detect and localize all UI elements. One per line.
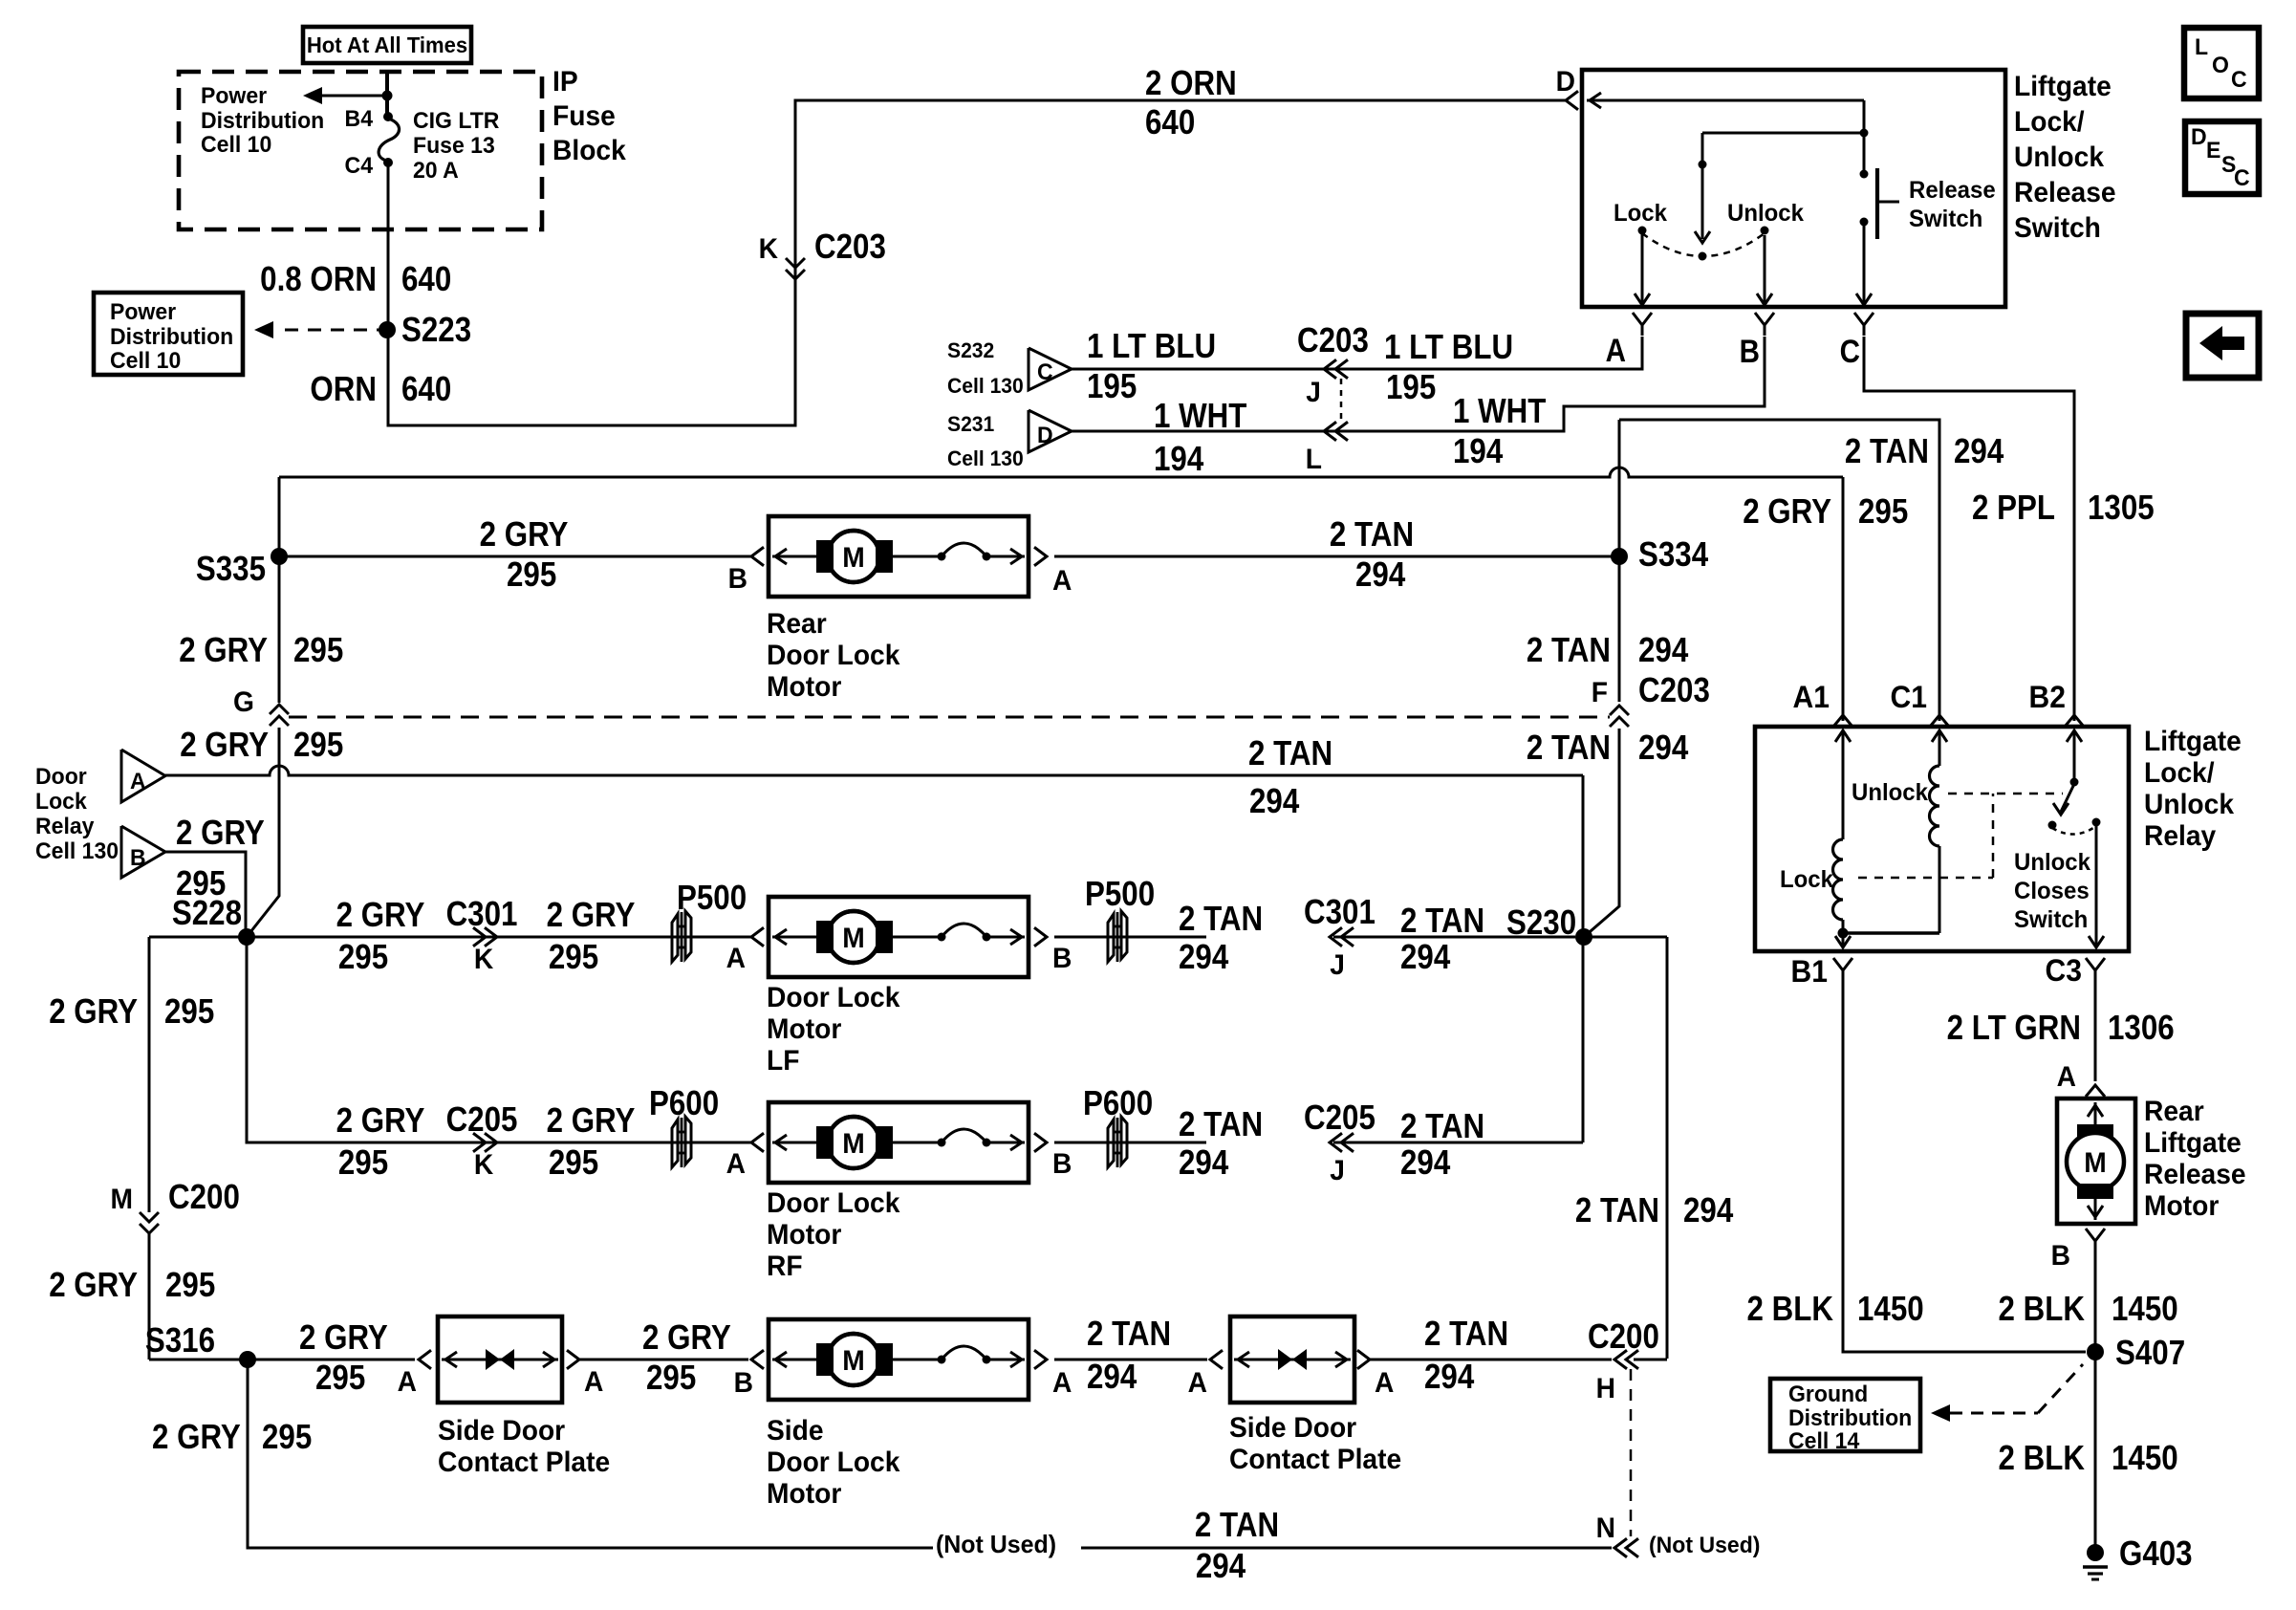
svg-text:A: A: [584, 1366, 603, 1398]
svg-text:B: B: [1052, 1148, 1072, 1180]
svg-text:M: M: [842, 923, 864, 954]
svg-text:S335: S335: [196, 550, 266, 589]
svg-text:194: 194: [1453, 432, 1503, 471]
svg-text:2 GRY: 2 GRY: [152, 1418, 241, 1457]
svg-text:C: C: [1037, 359, 1053, 385]
svg-text:195: 195: [1087, 367, 1137, 406]
svg-text:2 GRY: 2 GRY: [49, 992, 138, 1032]
svg-text:Ground: Ground: [1788, 1382, 1868, 1407]
svg-text:Cell 130: Cell 130: [947, 374, 1024, 399]
svg-text:A1: A1: [1793, 680, 1830, 714]
svg-text:294: 294: [1196, 1547, 1245, 1586]
svg-text:S232: S232: [947, 338, 994, 363]
svg-text:A: A: [1188, 1367, 1207, 1399]
svg-text:1 LT BLU: 1 LT BLU: [1384, 328, 1513, 367]
svg-text:2 TAN: 2 TAN: [1248, 734, 1332, 773]
svg-text:294: 294: [1249, 782, 1299, 821]
svg-text:IP: IP: [552, 66, 578, 98]
svg-text:295: 295: [293, 726, 343, 765]
svg-text:C205: C205: [1304, 1099, 1375, 1138]
svg-text:CIG LTR: CIG LTR: [413, 108, 499, 134]
svg-text:Motor: Motor: [767, 1219, 841, 1251]
svg-text:J: J: [1330, 949, 1345, 981]
svg-text:Release: Release: [1909, 178, 1996, 205]
svg-text:Cell 130: Cell 130: [947, 446, 1024, 471]
svg-text:Unlock: Unlock: [2144, 789, 2235, 820]
svg-text:295: 295: [646, 1359, 696, 1398]
svg-text:A: A: [1052, 565, 1072, 597]
svg-text:Fuse 13: Fuse 13: [413, 133, 495, 159]
svg-text:2 PPL: 2 PPL: [1972, 489, 2055, 528]
svg-text:Relay: Relay: [2144, 820, 2217, 852]
svg-text:P500: P500: [1085, 875, 1155, 914]
svg-text:294: 294: [1683, 1191, 1733, 1230]
svg-text:1 WHT: 1 WHT: [1453, 392, 1547, 431]
svg-text:A: A: [1375, 1367, 1394, 1399]
svg-text:C: C: [1840, 333, 1860, 369]
svg-text:S334: S334: [1638, 535, 1708, 575]
svg-text:S223: S223: [401, 311, 471, 350]
svg-text:Side Door: Side Door: [438, 1415, 565, 1447]
svg-text:C301: C301: [446, 895, 518, 934]
svg-text:E: E: [2206, 138, 2220, 163]
svg-text:2 GRY: 2 GRY: [1743, 492, 1831, 532]
svg-text:A: A: [1606, 332, 1626, 368]
svg-text:295: 295: [1858, 492, 1908, 532]
svg-text:295: 295: [549, 1143, 598, 1183]
svg-text:2 TAN: 2 TAN: [1424, 1315, 1508, 1354]
svg-text:C: C: [2231, 67, 2247, 93]
svg-text:2 GRY: 2 GRY: [179, 631, 268, 670]
svg-text:Liftgate: Liftgate: [2014, 71, 2112, 102]
svg-text:Cell 10: Cell 10: [201, 132, 271, 158]
svg-text:G: G: [233, 686, 254, 718]
svg-text:S316: S316: [145, 1321, 215, 1360]
svg-text:Distribution: Distribution: [1788, 1405, 1912, 1431]
svg-text:M: M: [2084, 1147, 2106, 1179]
svg-text:Cell 14: Cell 14: [1788, 1428, 1859, 1454]
svg-text:Switch: Switch: [1909, 207, 1982, 233]
svg-text:Cell 10: Cell 10: [110, 348, 181, 374]
svg-text:B: B: [130, 845, 146, 871]
svg-text:C4: C4: [345, 153, 373, 179]
svg-text:G403: G403: [2119, 1534, 2193, 1574]
svg-text:Release: Release: [2144, 1159, 2246, 1190]
svg-text:2 GRY: 2 GRY: [49, 1266, 138, 1305]
svg-text:D: D: [1556, 66, 1575, 98]
svg-text:O: O: [2212, 53, 2229, 78]
svg-text:Motor: Motor: [767, 1478, 841, 1510]
svg-text:294: 294: [1638, 631, 1688, 670]
svg-text:2 GRY: 2 GRY: [176, 814, 265, 853]
svg-text:Rear: Rear: [2144, 1096, 2204, 1127]
svg-text:F: F: [1592, 677, 1608, 708]
svg-text:K: K: [759, 233, 778, 265]
svg-text:294: 294: [1087, 1358, 1137, 1397]
svg-text:295: 295: [507, 555, 556, 595]
svg-text:Block: Block: [552, 135, 627, 166]
svg-text:C: C: [2234, 165, 2250, 191]
svg-text:2 TAN: 2 TAN: [1400, 1107, 1484, 1146]
svg-text:Closes: Closes: [2014, 879, 2090, 905]
svg-text:Lock/: Lock/: [2014, 106, 2085, 138]
svg-text:(Not Used): (Not Used): [1649, 1533, 1760, 1558]
svg-text:J: J: [1330, 1155, 1345, 1186]
svg-text:B: B: [734, 1367, 753, 1399]
svg-text:195: 195: [1386, 368, 1436, 407]
svg-text:640: 640: [1145, 103, 1195, 142]
svg-text:Contact Plate: Contact Plate: [1229, 1444, 1401, 1475]
svg-text:Unlock: Unlock: [1727, 201, 1804, 228]
svg-text:1450: 1450: [1857, 1290, 1924, 1329]
svg-text:ORN: ORN: [310, 370, 377, 409]
svg-text:B: B: [1740, 333, 1760, 369]
svg-text:2 GRY: 2 GRY: [642, 1318, 731, 1358]
svg-text:L: L: [1306, 444, 1322, 475]
svg-text:C200: C200: [1588, 1317, 1659, 1357]
svg-text:LF: LF: [767, 1045, 799, 1077]
svg-text:2 TAN: 2 TAN: [1195, 1506, 1279, 1545]
svg-text:294: 294: [1179, 1143, 1228, 1183]
svg-text:C205: C205: [446, 1100, 518, 1140]
svg-text:C200: C200: [168, 1178, 240, 1217]
svg-text:Unlock: Unlock: [1852, 780, 1928, 807]
svg-text:Fuse: Fuse: [552, 100, 616, 132]
svg-text:RF: RF: [767, 1251, 803, 1282]
svg-text:L: L: [2195, 34, 2208, 60]
svg-text:Door Lock: Door Lock: [767, 1447, 900, 1478]
svg-text:295: 295: [262, 1418, 312, 1457]
svg-text:A: A: [726, 1148, 746, 1180]
svg-text:J: J: [1306, 377, 1321, 408]
svg-text:B2: B2: [2029, 680, 2066, 714]
svg-text:Motor: Motor: [767, 671, 841, 703]
svg-text:1 LT BLU: 1 LT BLU: [1087, 327, 1216, 366]
svg-text:Switch: Switch: [2014, 907, 2088, 934]
svg-text:N: N: [1596, 1512, 1615, 1544]
svg-text:294: 294: [1954, 432, 2004, 471]
svg-text:C203: C203: [1638, 671, 1710, 710]
svg-text:2 ORN: 2 ORN: [1145, 64, 1237, 103]
svg-text:Side Door: Side Door: [1229, 1412, 1356, 1444]
svg-text:C3: C3: [2046, 953, 2082, 988]
svg-text:Side: Side: [767, 1415, 824, 1447]
svg-text:2 GRY: 2 GRY: [336, 1101, 425, 1141]
svg-text:Door: Door: [35, 764, 87, 790]
svg-text:2 TAN: 2 TAN: [1330, 515, 1414, 555]
svg-text:2 TAN: 2 TAN: [1845, 432, 1929, 471]
svg-text:2 GRY: 2 GRY: [299, 1318, 388, 1358]
svg-text:194: 194: [1154, 440, 1203, 479]
svg-text:Power: Power: [110, 299, 176, 325]
svg-text:1305: 1305: [2088, 489, 2155, 528]
svg-text:295: 295: [293, 631, 343, 670]
svg-text:2 TAN: 2 TAN: [1527, 631, 1611, 670]
svg-text:M: M: [111, 1184, 133, 1215]
svg-text:Lock/: Lock/: [2144, 757, 2215, 789]
svg-text:B: B: [1052, 943, 1072, 974]
svg-text:294: 294: [1179, 938, 1228, 977]
svg-text:Power: Power: [201, 83, 267, 109]
svg-text:A: A: [726, 943, 746, 974]
svg-text:P500: P500: [677, 879, 747, 918]
svg-text:2 TAN: 2 TAN: [1400, 902, 1484, 941]
svg-text:C301: C301: [1304, 893, 1375, 932]
svg-text:640: 640: [401, 260, 451, 299]
svg-text:294: 294: [1355, 555, 1405, 595]
svg-text:K: K: [474, 944, 493, 975]
svg-text:C203: C203: [814, 228, 886, 267]
svg-text:P600: P600: [649, 1084, 719, 1123]
svg-text:S231: S231: [947, 412, 994, 437]
svg-text:Lock: Lock: [1780, 867, 1833, 894]
svg-text:0.8 ORN: 0.8 ORN: [260, 260, 377, 299]
svg-text:1450: 1450: [2112, 1439, 2178, 1478]
svg-text:20 A: 20 A: [413, 158, 459, 184]
svg-text:D: D: [2191, 124, 2207, 150]
svg-text:2 GRY: 2 GRY: [180, 726, 269, 765]
svg-text:Lock: Lock: [1614, 201, 1667, 228]
svg-text:Release: Release: [2014, 177, 2116, 208]
svg-text:Unlock: Unlock: [2014, 850, 2090, 877]
svg-text:2 GRY: 2 GRY: [547, 896, 636, 935]
svg-text:Cell 130: Cell 130: [35, 838, 119, 864]
svg-text:A: A: [398, 1366, 417, 1398]
svg-text:Switch: Switch: [2014, 212, 2101, 244]
svg-text:Relay: Relay: [35, 814, 94, 839]
svg-text:Door Lock: Door Lock: [767, 640, 900, 671]
svg-text:Liftgate: Liftgate: [2144, 726, 2242, 757]
svg-text:Motor: Motor: [767, 1013, 841, 1045]
svg-text:K: K: [474, 1149, 493, 1181]
svg-text:A: A: [130, 769, 146, 794]
svg-text:294: 294: [1400, 938, 1450, 977]
svg-text:Lock: Lock: [35, 789, 88, 815]
svg-text:2 LT GRN: 2 LT GRN: [1947, 1009, 2081, 1048]
svg-text:(Not Used): (Not Used): [936, 1532, 1056, 1559]
svg-text:Unlock: Unlock: [2014, 141, 2105, 173]
svg-text:M: M: [842, 542, 864, 574]
svg-text:2 TAN: 2 TAN: [1087, 1315, 1171, 1354]
svg-text:Hot At All Times: Hot At All Times: [307, 33, 467, 58]
svg-text:1 WHT: 1 WHT: [1154, 397, 1247, 436]
svg-text:B: B: [728, 563, 747, 595]
svg-text:1306: 1306: [2108, 1009, 2175, 1048]
svg-text:H: H: [1596, 1373, 1615, 1404]
svg-text:2 TAN: 2 TAN: [1575, 1191, 1659, 1230]
svg-text:Distribution: Distribution: [110, 324, 233, 350]
svg-text:2 GRY: 2 GRY: [336, 896, 425, 935]
svg-text:Contact Plate: Contact Plate: [438, 1447, 610, 1478]
svg-text:295: 295: [164, 992, 214, 1032]
svg-text:294: 294: [1638, 729, 1688, 768]
svg-text:S230: S230: [1506, 903, 1576, 943]
svg-text:295: 295: [165, 1266, 215, 1305]
svg-text:294: 294: [1400, 1143, 1450, 1183]
svg-text:B1: B1: [1791, 954, 1828, 989]
svg-text:Motor: Motor: [2144, 1190, 2219, 1222]
svg-text:P600: P600: [1083, 1084, 1153, 1123]
svg-text:B: B: [2051, 1240, 2070, 1272]
svg-text:Distribution: Distribution: [201, 108, 324, 134]
svg-text:C203: C203: [1297, 321, 1369, 360]
svg-text:2 BLK: 2 BLK: [1999, 1290, 2086, 1329]
svg-text:A: A: [2057, 1061, 2076, 1093]
svg-text:1450: 1450: [2112, 1290, 2178, 1329]
svg-text:640: 640: [401, 370, 451, 409]
svg-text:M: M: [842, 1128, 864, 1160]
svg-text:2 TAN: 2 TAN: [1179, 900, 1263, 939]
svg-text:2 GRY: 2 GRY: [480, 515, 569, 555]
svg-text:295: 295: [315, 1359, 365, 1398]
svg-text:S228: S228: [172, 894, 242, 933]
svg-text:2 TAN: 2 TAN: [1179, 1105, 1263, 1144]
svg-text:Liftgate: Liftgate: [2144, 1127, 2242, 1159]
svg-text:M: M: [842, 1345, 864, 1377]
svg-text:C1: C1: [1891, 680, 1927, 714]
svg-text:A: A: [1052, 1367, 1072, 1399]
svg-text:Rear: Rear: [767, 608, 827, 640]
svg-text:B4: B4: [345, 106, 373, 132]
svg-text:2 TAN: 2 TAN: [1527, 729, 1611, 768]
svg-text:D: D: [1037, 423, 1053, 448]
svg-text:Door Lock: Door Lock: [767, 982, 900, 1013]
svg-text:2 BLK: 2 BLK: [1999, 1439, 2086, 1478]
svg-text:295: 295: [338, 1143, 388, 1183]
svg-text:2 GRY: 2 GRY: [547, 1101, 636, 1141]
svg-text:294: 294: [1424, 1358, 1474, 1397]
svg-text:Door Lock: Door Lock: [767, 1187, 900, 1219]
svg-text:2 BLK: 2 BLK: [1747, 1290, 1834, 1329]
svg-text:295: 295: [338, 938, 388, 977]
svg-text:S407: S407: [2115, 1334, 2185, 1373]
svg-text:295: 295: [549, 938, 598, 977]
